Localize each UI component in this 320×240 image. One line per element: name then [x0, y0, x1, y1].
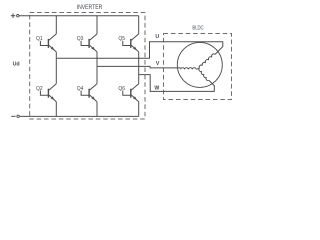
svg-text:Q2: Q2: [36, 86, 43, 92]
svg-text:V: V: [156, 61, 160, 67]
svg-text:INVERTER: INVERTER: [77, 5, 103, 11]
svg-text:Q5: Q5: [118, 36, 125, 42]
svg-text:Q6: Q6: [118, 86, 125, 92]
svg-text:Q3: Q3: [77, 36, 84, 42]
svg-text:W: W: [154, 86, 159, 92]
svg-text:Ud: Ud: [13, 62, 20, 68]
svg-text:Q4: Q4: [77, 86, 84, 92]
svg-text:U: U: [155, 34, 159, 40]
svg-text:BLDC: BLDC: [192, 25, 203, 31]
svg-text:Q1: Q1: [36, 36, 43, 42]
